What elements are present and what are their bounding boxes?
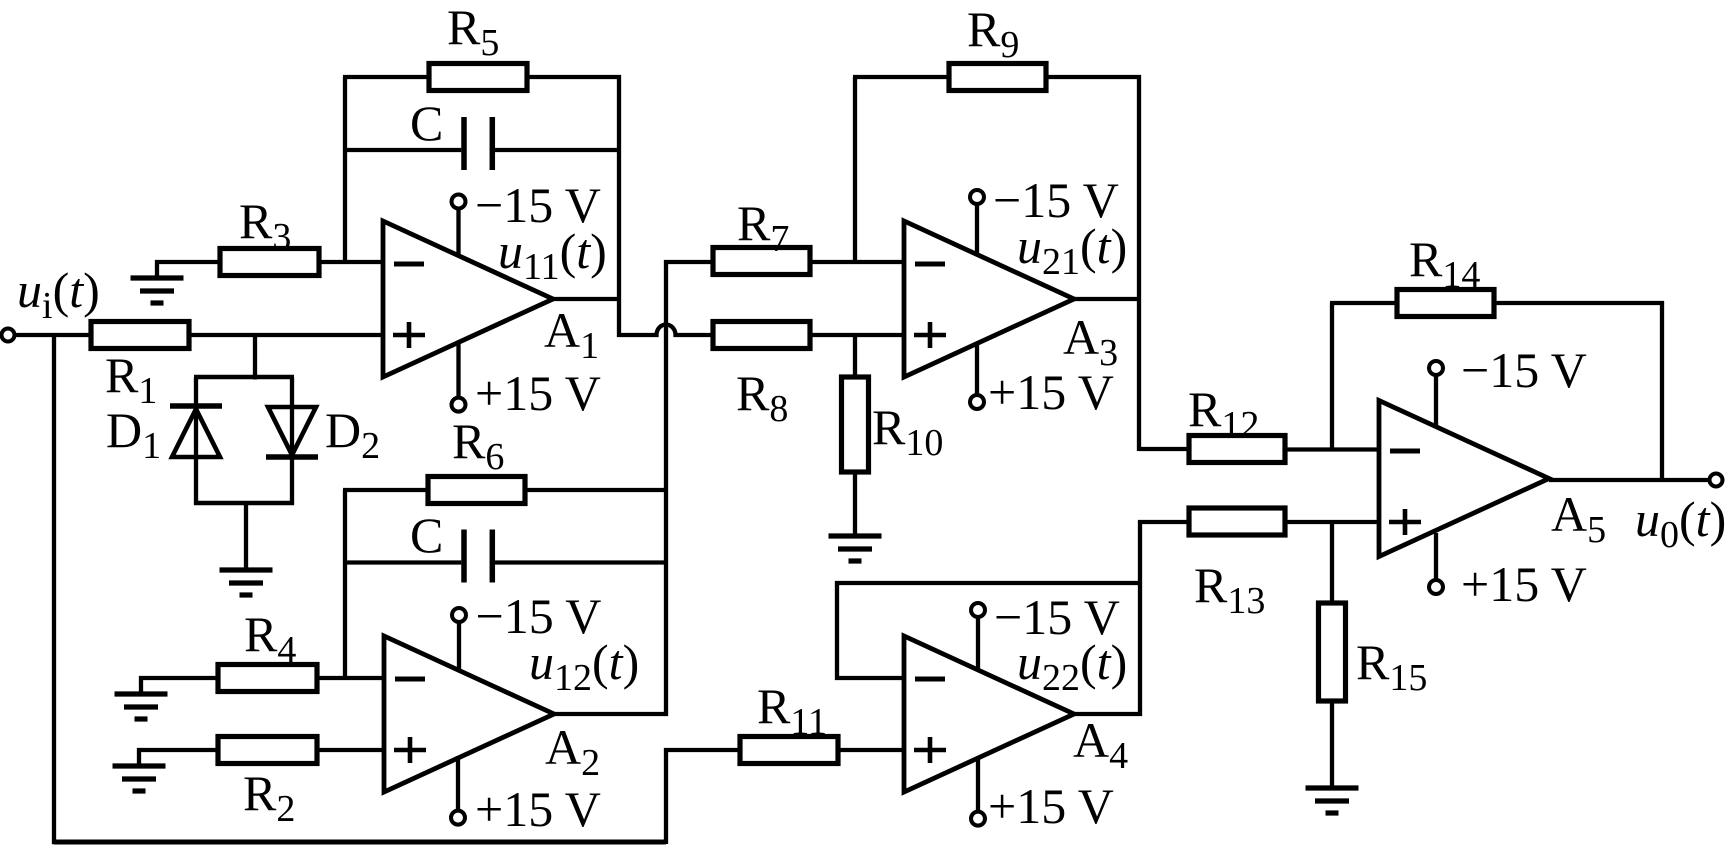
wire A1 feedback top right [527, 75, 621, 79]
wire A1 feedback left leg [343, 77, 347, 264]
wire R14 left leg [1330, 303, 1334, 451]
wire R9 top left [853, 75, 949, 79]
ground R10 [829, 536, 882, 561]
wire R2 to A2 plus [317, 748, 384, 752]
wire R6 right [525, 488, 668, 492]
svg-text:+15 V: +15 V [988, 778, 1114, 834]
wire R7 to A3 minus [810, 260, 904, 264]
resistor R11 [740, 737, 838, 764]
svg-text:−15 V: −15 V [476, 588, 602, 644]
label u21(t) [1017, 218, 1127, 283]
label R13 [1194, 557, 1265, 622]
label R3 [239, 193, 291, 258]
label -15 V A1 [475, 177, 601, 233]
label D2 [325, 402, 380, 467]
label A2 [545, 719, 600, 784]
resistor R6 [428, 477, 525, 504]
power pin +15V A5 [1429, 533, 1443, 594]
wire R9 left leg [853, 77, 857, 264]
svg-text:+15 V: +15 V [475, 365, 601, 421]
power pin -15V A3 [970, 190, 984, 256]
label +15 V A3 [988, 364, 1114, 420]
svg-text:u0(t): u0(t) [1635, 491, 1726, 556]
wire A3 output [1074, 297, 1139, 301]
wire R3 left to ground [157, 262, 220, 278]
label A1 [544, 302, 599, 367]
wire R11 to A4 plus [838, 748, 904, 752]
svg-text:+15 V: +15 V [1461, 556, 1587, 612]
resistor R15 [1319, 603, 1346, 701]
power pin -15V A5 [1429, 361, 1443, 428]
label R4 [244, 606, 296, 671]
label R8 [736, 365, 788, 430]
wire A1 output right leg [617, 75, 621, 337]
ground R4 [115, 694, 168, 719]
op-amp A3 [904, 221, 1074, 377]
resistor R8 [713, 322, 810, 349]
power pin +15V A1 [452, 341, 466, 412]
node u_0 output terminal [1710, 474, 1723, 487]
label A4 [1073, 712, 1128, 777]
svg-text:C: C [410, 95, 443, 151]
label u22(t) [1017, 634, 1127, 699]
label -15 V A4 [994, 589, 1120, 645]
label +15 V A2 [475, 781, 601, 837]
power pin +15V A2 [451, 756, 465, 825]
diode D1 [170, 406, 222, 457]
wire R1 to A1 plus [189, 333, 383, 337]
power pin -15V A2 [452, 608, 466, 672]
label -15 V A3 [993, 172, 1119, 228]
label R2 [243, 765, 295, 830]
op-amp A4 [904, 636, 1074, 792]
wire A4 feedback [837, 583, 1142, 678]
wire R15 to ground [1330, 701, 1334, 788]
wire u12 riser to R7 [554, 262, 713, 714]
wire A1 output [553, 297, 619, 301]
svg-text:ui(t): ui(t) [17, 262, 100, 327]
label R7 [737, 195, 789, 260]
wire R9 top right [1046, 75, 1141, 79]
wire D2 branch [290, 377, 294, 505]
wire input node down-leg [52, 335, 56, 844]
ground R15 [1306, 788, 1359, 813]
svg-text:−15 V: −15 V [993, 172, 1119, 228]
resistor R4 [218, 665, 317, 692]
power pin +15V A4 [971, 757, 985, 826]
resistor R14 [1397, 290, 1494, 317]
diode D2 [266, 407, 318, 457]
wire bottom bus riser [666, 750, 740, 844]
wire A2 feedback left leg [343, 490, 347, 680]
wire A5 output [1549, 478, 1709, 482]
label R9 [967, 1, 1019, 66]
svg-text:−15 V: −15 V [994, 589, 1120, 645]
capacitor C (A1 loop) [343, 117, 621, 170]
capacitor C (A2 loop) [343, 530, 668, 583]
ground diode pair [220, 570, 273, 595]
label R5 [447, 0, 499, 64]
resistor R7 [713, 248, 810, 275]
label -15 V A5 [1461, 342, 1587, 398]
resistor R9 [949, 64, 1046, 91]
resistor R2 [218, 737, 317, 764]
power pin -15V A1 [452, 195, 466, 258]
label D1 [106, 402, 161, 467]
node u_i input terminal [2, 329, 15, 342]
label R10 [872, 399, 943, 464]
wire R14 right leg [1660, 301, 1664, 482]
label +15 V A4 [988, 778, 1114, 834]
resistor R12 [1189, 436, 1285, 463]
wire A4 output riser to R13 [1074, 522, 1189, 714]
label u0(t) [1635, 491, 1726, 556]
label R14 [1409, 231, 1480, 296]
wire R14 top right [1494, 301, 1664, 305]
power pin -15V A4 [971, 603, 985, 671]
label u_i(t) [17, 262, 100, 327]
wire bottom bus [54, 840, 666, 845]
wire R6 left [343, 488, 428, 492]
wire junction down to R10 [853, 335, 857, 378]
resistor R13 [1189, 508, 1285, 535]
label R15 [1356, 634, 1427, 699]
wire diode-box top [194, 375, 294, 380]
label R6 [452, 413, 504, 478]
wire A1 out to R8 with hop [617, 325, 713, 336]
wire diode pair to ground [244, 503, 248, 570]
wire A3 output right leg [1137, 75, 1141, 451]
svg-text:+15 V: +15 V [988, 364, 1114, 420]
svg-text:−15 V: −15 V [1461, 342, 1587, 398]
label C (A2 loop) [410, 507, 443, 563]
ground R3 [131, 278, 184, 303]
wire R3 to A1 minus [319, 260, 383, 264]
wire A3 out to R12 [1139, 447, 1189, 451]
label R11 [757, 678, 827, 743]
op-amp A5 [1379, 401, 1549, 557]
wire junction down to diode pair [253, 335, 257, 380]
wire D1 branch [194, 377, 198, 505]
wire R10 to ground [853, 472, 857, 536]
svg-text:+15 V: +15 V [475, 781, 601, 837]
wire R13 to A5 plus [1285, 520, 1379, 524]
label -15 V A2 [476, 588, 602, 644]
label R12 [1188, 381, 1259, 446]
svg-text:−15 V: −15 V [475, 177, 601, 233]
resistor R10 [842, 377, 869, 472]
label A5 [1551, 486, 1606, 551]
wire R12 to A5 minus [1285, 447, 1379, 451]
wire R4 to A2 minus [317, 676, 384, 680]
label +15 V A5 [1461, 556, 1587, 612]
label C (A1 loop) [410, 95, 443, 151]
label u12(t) [529, 634, 639, 699]
wire diode-box bottom [194, 501, 294, 506]
wire R8 to A3 plus [810, 333, 904, 337]
label u11(t) [498, 223, 607, 288]
resistor R5 [429, 64, 527, 91]
op-amp A2 [384, 636, 554, 792]
power pin +15V A3 [970, 342, 984, 409]
wire junction down to R15 [1330, 522, 1334, 604]
wire R2 left to ground [139, 750, 218, 766]
svg-text:C: C [410, 507, 443, 563]
op-amp A1 [383, 221, 553, 377]
resistor R1 [91, 322, 189, 349]
wire A1 feedback top left [343, 75, 429, 79]
resistor R3 [220, 249, 319, 276]
label +15 V A1 [475, 365, 601, 421]
label A3 [1063, 309, 1118, 374]
wire input to R1 [15, 333, 91, 337]
wire R4 left to ground [141, 678, 218, 694]
ground R2 [113, 766, 166, 791]
label R1 [105, 347, 157, 412]
wire R14 top left [1330, 301, 1397, 305]
